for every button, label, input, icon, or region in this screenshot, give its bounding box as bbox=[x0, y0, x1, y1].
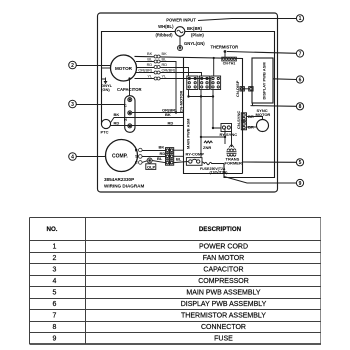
svg-text:WH(BL): WH(BL) bbox=[158, 24, 174, 29]
svg-text:CAPACITOR: CAPACITOR bbox=[203, 267, 243, 274]
svg-text:(110V/T3A): (110V/T3A) bbox=[210, 171, 228, 175]
svg-text:2: 2 bbox=[71, 63, 74, 69]
svg-text:5: 5 bbox=[299, 160, 302, 166]
svg-text:BK(BR): BK(BR) bbox=[187, 26, 202, 31]
svg-text:BK: BK bbox=[114, 112, 120, 117]
svg-text:BK: BK bbox=[159, 145, 165, 150]
svg-text:BK: BK bbox=[162, 51, 168, 56]
svg-text:1: 1 bbox=[299, 16, 302, 22]
svg-text:GNYL(GN): GNYL(GN) bbox=[184, 41, 205, 46]
svg-text:CN-TH1: CN-TH1 bbox=[223, 62, 236, 66]
svg-text:8: 8 bbox=[53, 324, 57, 331]
svg-text:BK: BK bbox=[165, 112, 171, 117]
svg-text:BL: BL bbox=[176, 156, 182, 161]
svg-text:COMP.: COMP. bbox=[112, 154, 128, 160]
svg-text:C: C bbox=[124, 103, 127, 108]
svg-text:8: 8 bbox=[299, 104, 302, 110]
svg-text:NO.: NO. bbox=[46, 226, 57, 233]
svg-text:FUSE: FUSE bbox=[214, 336, 233, 343]
svg-text:(Plain): (Plain) bbox=[191, 33, 204, 38]
svg-text:6: 6 bbox=[299, 77, 302, 83]
svg-text:THERMISTOR ASSEMBLY: THERMISTOR ASSEMBLY bbox=[181, 313, 266, 320]
svg-text:POWER INPUT: POWER INPUT bbox=[166, 18, 196, 23]
svg-text:PTC: PTC bbox=[101, 130, 109, 135]
svg-text:CAPACITOR: CAPACITOR bbox=[117, 87, 142, 92]
svg-text:WIRING DIAGRAM: WIRING DIAGRAM bbox=[104, 184, 144, 189]
svg-text:MAIN PWB ASSEMBLY: MAIN PWB ASSEMBLY bbox=[186, 290, 260, 297]
svg-text:DESCRIPTION: DESCRIPTION bbox=[199, 226, 242, 233]
svg-text:(Ribbed): (Ribbed) bbox=[156, 33, 174, 38]
svg-text:FAN MOTOR: FAN MOTOR bbox=[203, 255, 244, 262]
svg-text:FUSE: FUSE bbox=[200, 167, 210, 171]
svg-text:CONNECTOR: CONNECTOR bbox=[201, 324, 246, 331]
svg-text:2: 2 bbox=[53, 255, 57, 262]
svg-text:9: 9 bbox=[299, 181, 302, 187]
svg-text:YL: YL bbox=[147, 74, 153, 79]
svg-text:BL: BL bbox=[147, 57, 153, 62]
svg-text:C: C bbox=[135, 160, 138, 165]
svg-text:S: S bbox=[135, 154, 138, 159]
svg-text:CN-SYNC: CN-SYNC bbox=[236, 111, 241, 129]
svg-text:BL: BL bbox=[162, 57, 168, 62]
svg-text:RY-COMP: RY-COMP bbox=[186, 151, 205, 156]
svg-text:RD: RD bbox=[162, 62, 168, 67]
svg-text:OLP: OLP bbox=[147, 164, 156, 169]
svg-text:RY-SYNC: RY-SYNC bbox=[220, 132, 238, 137]
svg-text:MAIN PWB ASM: MAIN PWB ASM bbox=[186, 118, 191, 149]
svg-text:4: 4 bbox=[53, 278, 57, 285]
svg-text:RD: RD bbox=[147, 62, 153, 67]
svg-text:CN-MOTOR: CN-MOTOR bbox=[179, 90, 184, 112]
svg-text:3: 3 bbox=[53, 267, 57, 274]
svg-text:RD: RD bbox=[168, 121, 174, 126]
svg-text:RD: RD bbox=[114, 121, 120, 126]
svg-text:MOTOR: MOTOR bbox=[115, 66, 133, 71]
svg-text:9: 9 bbox=[53, 336, 57, 343]
svg-text:7: 7 bbox=[299, 51, 302, 57]
svg-text:COMPRESSOR: COMPRESSOR bbox=[198, 278, 249, 285]
svg-text:7: 7 bbox=[53, 313, 57, 320]
svg-text:CN-DISP: CN-DISP bbox=[235, 80, 240, 97]
svg-text:THERMISTOR: THERMISTOR bbox=[211, 45, 239, 50]
svg-text:YL: YL bbox=[162, 74, 168, 79]
svg-text:DISPLAY PWB ASSEMBLY: DISPLAY PWB ASSEMBLY bbox=[181, 301, 267, 308]
svg-text:OR(BR): OR(BR) bbox=[138, 68, 153, 73]
svg-text:(GN): (GN) bbox=[101, 87, 110, 92]
svg-text:1: 1 bbox=[53, 244, 57, 251]
svg-text:FORMER: FORMER bbox=[225, 160, 242, 165]
svg-text:BL: BL bbox=[157, 156, 163, 161]
svg-text:POWER CORD: POWER CORD bbox=[199, 244, 248, 251]
svg-text:3: 3 bbox=[71, 102, 74, 108]
svg-text:4: 4 bbox=[71, 154, 74, 160]
svg-text:3854AR2330P: 3854AR2330P bbox=[104, 177, 134, 182]
svg-text:ZNR: ZNR bbox=[203, 145, 211, 150]
svg-text:R: R bbox=[135, 147, 138, 152]
svg-text:6: 6 bbox=[53, 301, 57, 308]
svg-text:OR(BR): OR(BR) bbox=[162, 68, 177, 73]
svg-text:BK: BK bbox=[147, 51, 153, 56]
svg-text:DISPLAY PWB ASM: DISPLAY PWB ASM bbox=[262, 62, 267, 100]
svg-text:5: 5 bbox=[53, 290, 57, 297]
